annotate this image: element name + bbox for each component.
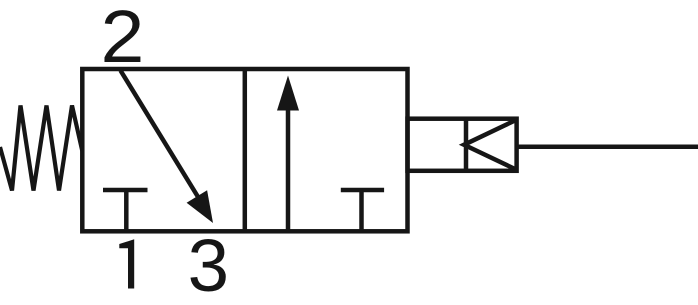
svg-text:3: 3 [188,224,229,305]
svg-text:2: 2 [101,0,145,78]
